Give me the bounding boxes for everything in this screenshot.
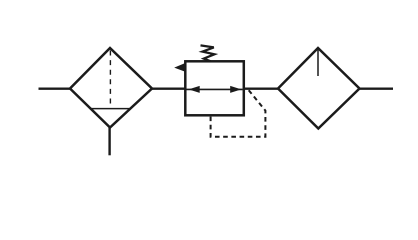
regulator internal double-headed arrow (187, 86, 243, 93)
lubricator (diamond) (278, 48, 360, 129)
spring (zigzag) on regulator top (201, 45, 215, 61)
wire inlet stub (39, 88, 71, 90)
wire filter to regulator (152, 88, 186, 90)
pilot dashed line (feedback loop) (211, 90, 266, 137)
drain line below filter (108, 128, 110, 156)
vent arrow on regulator left edge (174, 63, 185, 72)
wire outlet stub (360, 88, 394, 90)
wire regulator to lubricator (244, 88, 279, 90)
filter (diamond with water separator) (70, 48, 152, 128)
lubricator drip line (317, 50, 319, 76)
regulator body (square) (185, 61, 244, 115)
